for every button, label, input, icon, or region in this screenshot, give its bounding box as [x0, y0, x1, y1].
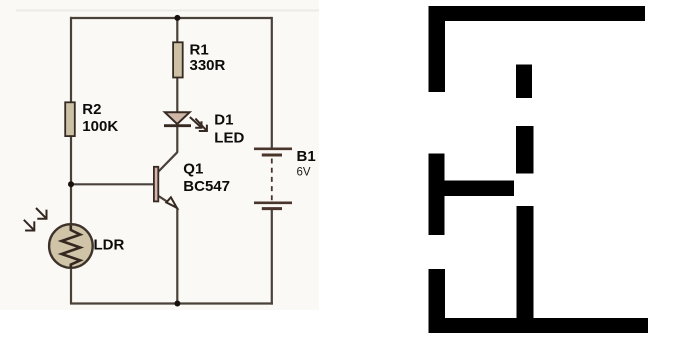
right pattern: middle dash upper: [516, 65, 532, 99]
svg-text:LED: LED: [214, 129, 244, 146]
svg-text:Q1: Q1: [183, 160, 203, 177]
battery B1 cell2 negative plate: [262, 207, 282, 210]
right pattern: bottom bar: [429, 318, 649, 333]
svg-text:BC547: BC547: [183, 178, 230, 195]
wire: right vertical rail upper (to battery +): [271, 17, 273, 148]
wire: middle branch vertical (R1 / LED / collector): [176, 17, 178, 152]
right pattern: left leg middle: [429, 154, 445, 236]
wire: right vertical rail lower (from battery -): [271, 210, 273, 305]
transistor Q1 base bar: [154, 167, 158, 202]
svg-text:6V: 6V: [297, 166, 311, 178]
wire: top rail from left corner to battery: [70, 17, 272, 19]
LED light arrow 1: [190, 117, 202, 128]
svg-text:B1: B1: [297, 148, 316, 165]
right pattern: top bar: [429, 6, 646, 21]
wire: collector diagonal into Q1: [158, 152, 178, 172]
diode D1 cathode bar: [164, 124, 191, 127]
wire: left vertical rail: [70, 17, 72, 304]
right pattern: middle long bar: [517, 206, 534, 333]
LED light arrow 2: [195, 119, 207, 131]
svg-text:330R: 330R: [190, 57, 226, 74]
svg-text:R2: R2: [82, 101, 101, 118]
junction: base node on left rail: [68, 181, 74, 187]
right pattern: left leg upper: [429, 6, 446, 92]
right pattern: middle dash lower: [516, 126, 534, 174]
svg-text:LDR: LDR: [94, 237, 125, 254]
svg-text:100K: 100K: [82, 118, 118, 135]
resistor R2: [65, 102, 75, 136]
LDR light arrow 1: [36, 208, 47, 219]
right pattern: horizontal stub: [445, 181, 515, 197]
battery B1 dashed link: [271, 159, 273, 201]
battery B1 cell1 positive plate: [254, 148, 292, 151]
wire: emitter diagonal from Q1: [158, 196, 177, 208]
junction: top node (R1 branch to top rail): [174, 15, 180, 21]
right pattern: left leg lower: [429, 269, 446, 333]
svg-text:D1: D1: [214, 111, 233, 128]
wire: base wire from left rail to Q1: [70, 183, 154, 185]
battery B1 cell1 negative plate: [262, 154, 282, 157]
transistor Q1 emitter arrowhead: [166, 197, 177, 207]
svg-text:R1: R1: [190, 41, 209, 58]
LDR light arrow 2: [24, 220, 35, 231]
resistor R1: [173, 42, 183, 77]
photoresistor LDR body circle: [49, 224, 93, 268]
photoresistor LDR zigzag element: [62, 226, 81, 268]
diode D1 LED triangle: [165, 112, 190, 124]
junction: bottom node (emitter branch to bottom rail): [174, 301, 180, 307]
battery B1 cell2 positive plate: [254, 202, 292, 205]
wire: bottom rail: [70, 302, 273, 304]
wire: emitter vertical down to bottom rail: [176, 208, 178, 304]
